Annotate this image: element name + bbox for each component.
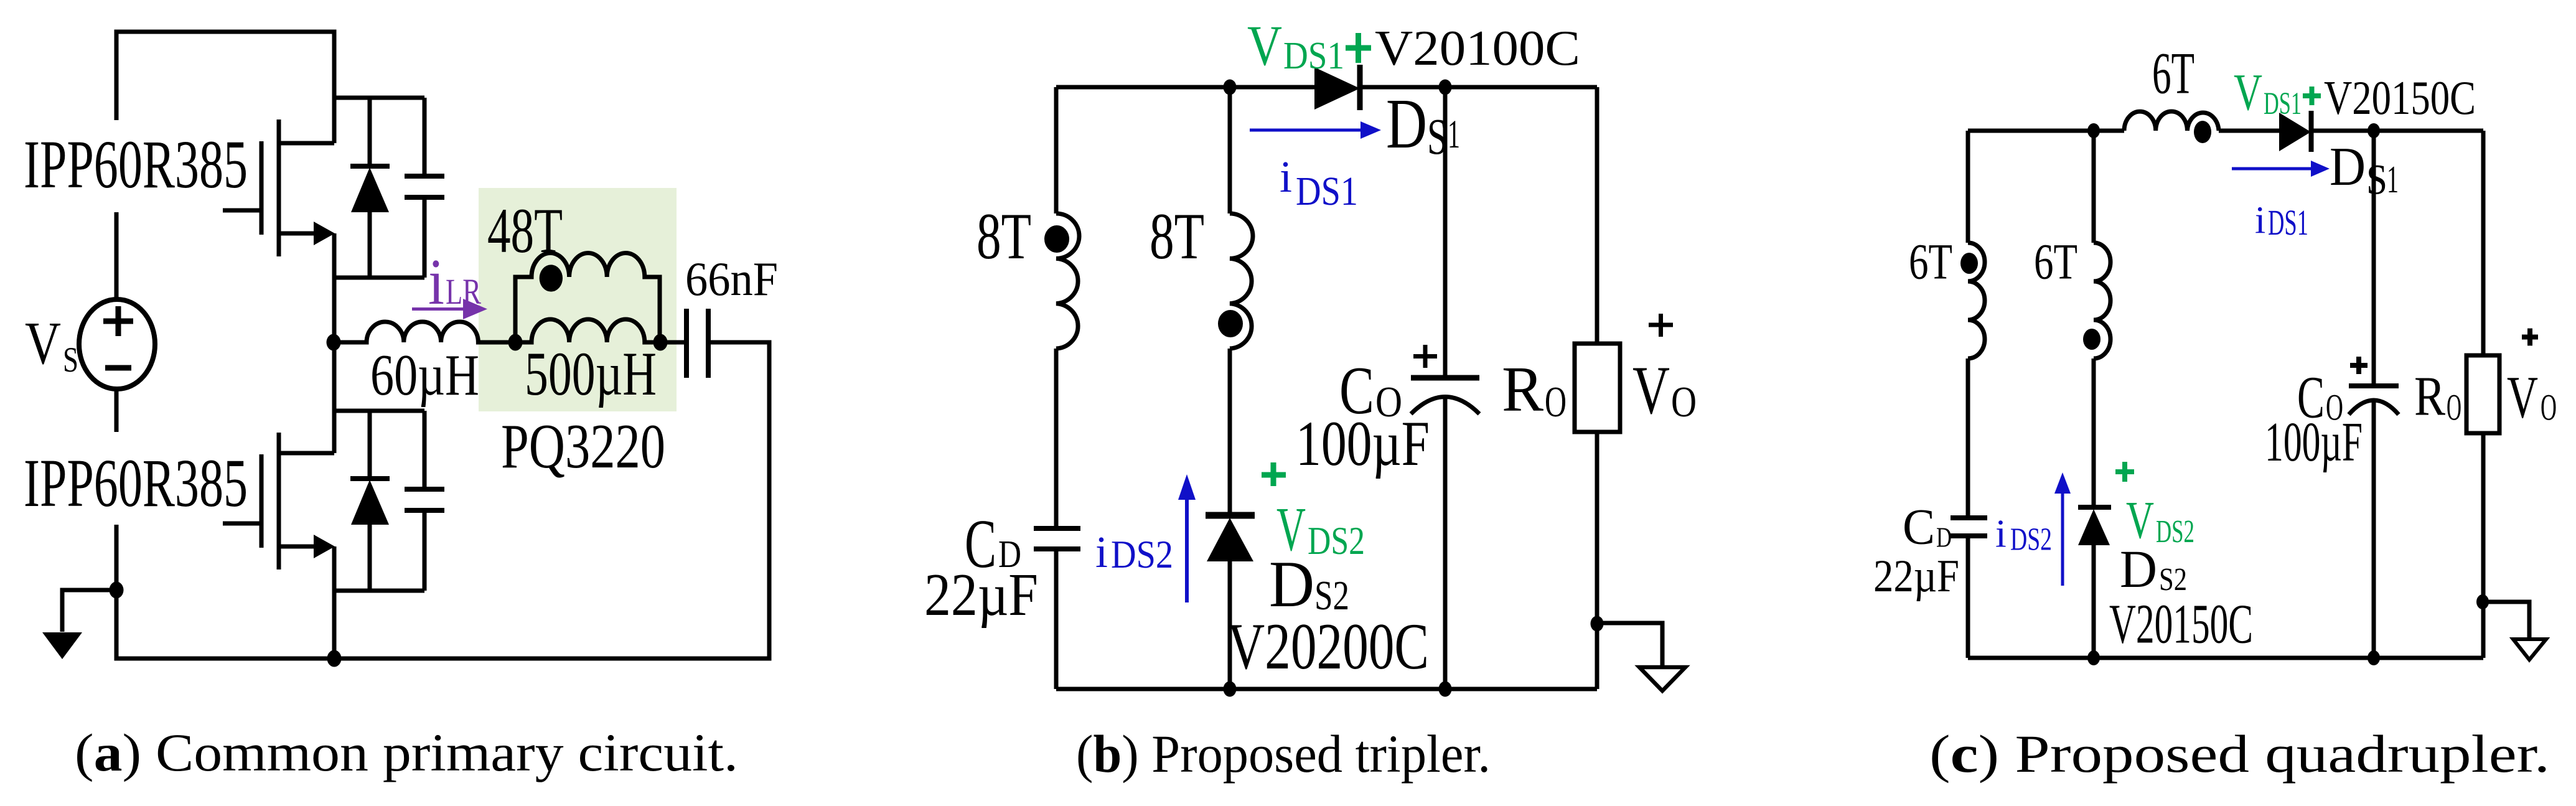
voltage source VS — [79, 299, 155, 389]
svg-text:S: S — [2366, 156, 2387, 204]
svg-text:V: V — [2234, 63, 2262, 121]
wire top bus left (c) — [1968, 129, 2124, 133]
wire CD to bottom bus (c) — [1966, 536, 1970, 658]
transistor Q2 (IPP60R385) — [223, 433, 335, 569]
wire N2 to DS2 (c) — [2092, 358, 2096, 508]
wire left rail top (c) — [1966, 131, 1970, 243]
svg-text:DS1: DS1 — [1296, 169, 1358, 214]
transistor Q1 (IPP60R385) — [223, 119, 335, 256]
wire DS2 to bottom bus (c) — [2092, 545, 2096, 658]
svg-text:IPP60R385: IPP60R385 — [24, 445, 248, 521]
svg-text:V20150C: V20150C — [2109, 594, 2253, 655]
svg-text:D: D — [2330, 137, 2366, 197]
wire CO to bottom bus — [1443, 396, 1448, 689]
svg-text:O: O — [2541, 387, 2557, 428]
plus VDS1 (c) — [2303, 87, 2321, 105]
svg-text:(a) Common primary circuit.: (a) Common primary circuit. — [75, 723, 738, 782]
wire CO branch top (c) — [2372, 131, 2376, 386]
polarity dot winding N1 — [1044, 225, 1069, 253]
svg-text:V: V — [1632, 352, 1670, 428]
wire right rail top — [1595, 87, 1599, 344]
node top mid (c) — [2087, 123, 2100, 138]
current arrow iDS1 (b) — [1250, 121, 1381, 139]
svg-text:100µF: 100µF — [2265, 411, 2363, 473]
polarity dot N1 (c) — [1960, 253, 1978, 274]
node bottom CO — [1439, 682, 1452, 697]
wire right rail top (c) — [2481, 131, 2486, 355]
diode DS2 (V20200C) — [1206, 515, 1255, 561]
wire bottom bus (c) — [1968, 656, 2483, 660]
wire left rail top + winding N1 top — [1054, 87, 1059, 213]
svg-text:V20100C: V20100C — [1375, 21, 1580, 76]
winding 48T — [515, 253, 660, 342]
svg-text:6T: 6T — [2152, 40, 2194, 106]
winding 6T N2 (c) — [2094, 243, 2110, 358]
PANEL B — [1034, 65, 1685, 697]
svg-text:22µF: 22µF — [924, 561, 1038, 628]
svg-text:(c) Proposed quadrupler.: (c) Proposed quadrupler. — [1929, 724, 2550, 784]
svg-text:(b) Proposed tripler.: (b) Proposed tripler. — [1076, 724, 1491, 784]
polarity dot series 6T (c) — [2194, 121, 2211, 143]
diode DS2 (V20150C bottom) — [2078, 507, 2111, 545]
inductor magnetizing 500uH — [515, 319, 660, 342]
svg-text:DS2: DS2 — [1111, 533, 1173, 576]
plus VO (c) — [2522, 329, 2538, 346]
node ground (c) — [2476, 594, 2489, 609]
winding 6T N1 (c) — [1968, 243, 1985, 358]
wire mid rail top (c) — [2092, 131, 2096, 243]
body diode of Q2 — [350, 411, 390, 591]
node top CO — [1439, 80, 1452, 95]
svg-text:i: i — [1280, 152, 1292, 202]
current arrow iLR — [412, 299, 487, 319]
wire winding N1 to CD — [1054, 349, 1059, 528]
node bottom mid (c) — [2087, 650, 2100, 665]
wire RO to bottom corner — [1595, 432, 1599, 689]
svg-text:D: D — [1936, 522, 1952, 553]
node Q2 source bottom — [327, 650, 342, 667]
wire bottom bus — [1056, 687, 1597, 691]
svg-text:S: S — [63, 340, 78, 380]
wire coil to diode (c) — [2219, 129, 2279, 133]
wire mid rail top — [1228, 87, 1232, 213]
polarity dot winding N2 — [1218, 310, 1243, 337]
wire winding N2 to DS2 — [1228, 349, 1232, 517]
svg-text:IPP60R385: IPP60R385 — [24, 126, 248, 202]
svg-text:C: C — [1903, 499, 1935, 555]
wire top bus left — [1056, 85, 1314, 90]
node half-bridge mid — [327, 334, 341, 351]
svg-text:V20150C: V20150C — [2324, 71, 2476, 124]
svg-text:100µF: 100µF — [1296, 408, 1430, 479]
polarity dot 48T — [540, 265, 563, 291]
wire top bus right — [1360, 85, 1597, 90]
node top CO (c) — [2368, 123, 2380, 138]
svg-text:500µH: 500µH — [525, 339, 657, 408]
plus CO (b) — [1413, 345, 1437, 368]
wire Q2 source to bottom bus — [332, 546, 337, 658]
svg-text:R: R — [2414, 366, 2445, 428]
plus VO (b) — [1649, 314, 1673, 337]
capacitor CO 100uF (c) — [2349, 386, 2399, 415]
current arrow iDS1 (c) — [2232, 161, 2330, 177]
wire Q1 source to Q2 drain (mid rail) — [332, 233, 337, 453]
wire Q1 subcircuit bottom rail — [334, 276, 424, 280]
svg-text:8T: 8T — [977, 200, 1031, 273]
svg-text:O: O — [1545, 378, 1567, 426]
wire CD to bottom bus — [1054, 549, 1059, 689]
wire VS bottom / bottom bus / 66nF return — [115, 389, 119, 432]
wire Q2 subcircuit bottom rail — [334, 589, 424, 593]
capacitor 66nF — [660, 309, 708, 378]
plus VDS1 (b) — [1346, 33, 1371, 63]
wire top-left loop: VS top to Q1 drain — [116, 32, 334, 143]
svg-text:22µF: 22µF — [1873, 551, 1959, 602]
svg-text:6T: 6T — [1909, 233, 1952, 290]
svg-text:LR: LR — [446, 271, 481, 312]
capacitor CD 22uF — [1034, 528, 1080, 549]
svg-text:8T: 8T — [1150, 200, 1204, 273]
svg-text:6T: 6T — [2034, 233, 2077, 290]
wire CO to bottom bus (c) — [2372, 401, 2376, 658]
resistor RO (c) — [2466, 355, 2499, 433]
svg-text:i: i — [1095, 527, 1108, 577]
svg-text:D: D — [2120, 539, 2157, 599]
node 48T right — [653, 334, 668, 351]
node 48T left — [508, 334, 523, 351]
capacitor CO 100uF — [1411, 378, 1479, 414]
svg-text:V: V — [1247, 14, 1282, 77]
ground (c) — [2483, 602, 2546, 660]
svg-text:DS1: DS1 — [2264, 87, 2302, 121]
plus CO (c) — [2350, 357, 2368, 374]
svg-text:DS1: DS1 — [2268, 202, 2308, 243]
svg-text:PQ3220: PQ3220 — [501, 411, 665, 482]
node bottom CO (c) — [2368, 650, 2380, 665]
body diode of Q1 — [350, 98, 390, 278]
plus VDS2 (c) — [2115, 462, 2134, 482]
svg-text:i: i — [1995, 512, 2007, 556]
winding 8T N2 — [1230, 213, 1253, 349]
svg-text:DS2: DS2 — [2010, 522, 2052, 558]
resistor RO — [1575, 344, 1620, 432]
wire Q1 subcircuit top rail — [334, 96, 424, 100]
diode DS1 (V20150C) — [2279, 111, 2311, 152]
wire CO branch top — [1443, 87, 1448, 378]
svg-text:DS1: DS1 — [1283, 35, 1344, 77]
svg-text:48T: 48T — [487, 195, 563, 266]
wire DS2 to bottom bus — [1228, 561, 1232, 689]
inductor LR 60uH — [334, 322, 515, 342]
node bottom mid — [1224, 682, 1237, 697]
transformer core highlight box PQ3220 — [479, 188, 677, 411]
wire Q2 subcircuit top rail — [334, 409, 424, 413]
svg-text:60µH: 60µH — [370, 343, 479, 408]
node VS ground junction — [110, 582, 124, 599]
wire N1 to CD (c) — [1966, 358, 1970, 518]
plus VDS2 (b) — [1262, 462, 1286, 486]
PANEL C — [1951, 111, 2546, 665]
svg-text:i: i — [2255, 200, 2265, 242]
ground (a) — [42, 590, 116, 659]
svg-text:D: D — [1386, 84, 1427, 163]
diode DS1 (V20100C) — [1314, 65, 1360, 110]
snubber capacitor of Q1 — [405, 98, 444, 278]
svg-text:S2: S2 — [2159, 562, 2187, 597]
ground (b) — [1597, 623, 1685, 691]
svg-text:V: V — [25, 310, 61, 377]
svg-text:66nF: 66nF — [685, 252, 778, 306]
capacitor CD 22uF (c) — [1951, 518, 1987, 536]
current arrow iDS2 (c) — [2054, 472, 2071, 586]
svg-text:1: 1 — [1448, 112, 1460, 157]
svg-text:O: O — [1671, 378, 1697, 426]
svg-text:DS2: DS2 — [2156, 514, 2194, 550]
svg-text:1: 1 — [2387, 159, 2399, 201]
wire top bus right (c) — [2311, 129, 2483, 133]
winding 6T series (c) — [2124, 111, 2219, 131]
node ground (b) — [1591, 616, 1604, 632]
current arrow iDS2 (b) — [1178, 474, 1196, 602]
node top mid — [1224, 80, 1237, 95]
svg-text:DS2: DS2 — [1308, 519, 1365, 563]
svg-text:O: O — [2447, 387, 2461, 428]
svg-text:V20200C: V20200C — [1227, 610, 1429, 683]
svg-text:V: V — [2507, 364, 2538, 431]
polarity dot N2 (c) — [2083, 329, 2101, 350]
wire RO to bottom corner (c) — [2481, 433, 2486, 658]
svg-text:i: i — [428, 245, 444, 318]
winding 8T N1 — [1056, 213, 1079, 349]
svg-text:R: R — [1502, 354, 1544, 425]
svg-text:S: S — [1427, 108, 1448, 165]
snubber capacitor of Q2 — [405, 411, 444, 591]
